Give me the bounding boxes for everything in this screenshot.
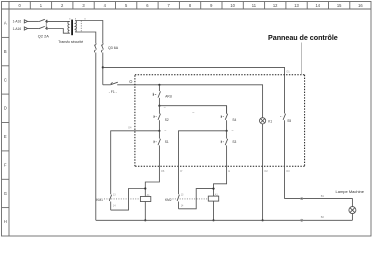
node 1-A16 line2 connector	[24, 27, 27, 30]
svg-text:1-A16: 1-A16	[13, 27, 22, 31]
svg-text:B2: B2	[321, 215, 325, 219]
wire S3 exit to KM2 coil	[214, 166, 227, 196]
wire F1 to ARU junction and K1 drop	[117, 85, 262, 118]
node connector B1	[301, 198, 303, 200]
emergency stop ARU	[153, 85, 160, 106]
breaker Q2 mechanical link	[45, 20, 47, 29]
wire F1 branch into panel	[103, 84, 111, 86]
contactor KM1 latch contact	[109, 189, 145, 211]
wire L1 from connector to Q2	[28, 20, 39, 22]
wire 0V bottom rail	[96, 219, 353, 221]
svg-text:H: H	[4, 219, 7, 224]
svg-text:10: 10	[230, 3, 235, 8]
svg-text:O6: O6	[161, 169, 165, 173]
node junction ARU tap	[158, 84, 160, 86]
pushbutton S4	[221, 106, 228, 131]
fuse switch F1	[110, 82, 118, 85]
svg-text:H: H	[228, 169, 230, 173]
svg-text:O4: O4	[128, 126, 132, 130]
pin tick S4 bottom	[232, 129, 234, 131]
wire transformer secondary bottom to Q3 left pole	[75, 32, 96, 42]
svg-text:O1: O1	[286, 69, 290, 73]
svg-text:Q3 6A: Q3 6A	[108, 46, 119, 50]
wire S1 exit to KM1 coil	[145, 166, 159, 196]
breaker Q2 pole 2	[39, 26, 48, 29]
svg-text:13: 13	[294, 3, 299, 8]
svg-text:S2: S2	[165, 118, 169, 122]
node junction KM1 on 0V rail	[144, 219, 146, 221]
svg-text:ARU: ARU	[165, 94, 172, 98]
mechanical link KM1	[104, 198, 140, 200]
svg-text:Transfo sécurité: Transfo sécurité	[58, 40, 83, 44]
svg-text:B: B	[4, 49, 7, 54]
svg-text:KM1: KM1	[96, 198, 103, 202]
wire phase down from Q3 to F1 tap	[102, 55, 104, 85]
svg-text:B1: B1	[321, 194, 325, 198]
node junction below ARU	[158, 105, 160, 107]
lamp Lampe Machine	[349, 207, 356, 214]
svg-text:S1: S1	[165, 140, 169, 144]
pushbutton S2	[154, 106, 161, 131]
wire to KM2 latch contact	[179, 131, 227, 194]
svg-text:S4: S4	[232, 118, 236, 122]
svg-text:- F1 -: - F1 -	[109, 90, 117, 94]
breaker Q2 pole 1	[39, 19, 48, 22]
svg-text:Lampe Machine: Lampe Machine	[336, 189, 365, 194]
svg-text:KM2: KM2	[165, 198, 172, 202]
pin tick S2 bottom	[164, 129, 166, 131]
pushbutton S1	[154, 131, 161, 167]
svg-text:G: G	[4, 191, 7, 196]
pushbutton S5	[280, 114, 285, 199]
transformer T1 Transfo securite	[68, 18, 85, 35]
svg-text:Q2 2A: Q2 2A	[38, 33, 49, 38]
node terminal circle at panel entry	[130, 80, 132, 82]
leader line from label to panel	[301, 43, 303, 75]
svg-text:O2: O2	[264, 169, 268, 173]
pin tick on branch wire	[192, 111, 194, 113]
node junction KM1 coil top	[144, 187, 146, 189]
breaker Q3 right pole	[101, 42, 103, 55]
breaker Q3 left pole	[94, 42, 96, 55]
pushbutton S3	[221, 131, 228, 167]
wire Q2 pole1 to transformer primary top	[46, 20, 70, 22]
svg-text:O3: O3	[286, 169, 290, 173]
svg-text:1-A16: 1-A16	[13, 20, 22, 24]
coil KM1	[140, 197, 150, 202]
wire 0V left rail down from Q3	[95, 55, 97, 221]
node junction top rail tap	[102, 66, 104, 68]
wire KM2 coil bottom to 0V rail	[213, 201, 215, 220]
node 1-A16 line1 connector	[24, 20, 27, 23]
svg-text:12: 12	[273, 3, 278, 8]
mechanical link KM2	[173, 198, 209, 200]
node junction KM2 coil top	[212, 188, 214, 190]
node connector B2	[301, 219, 303, 221]
node junction KM2 on 0V rail	[212, 219, 214, 221]
node junction below S2	[158, 130, 160, 132]
node junction K1 on 0V rail	[262, 219, 264, 221]
wire Q2 pole2 to transformer primary bottom	[46, 29, 70, 34]
wire transformer secondary top to Q3 right pole	[75, 21, 103, 42]
wire KM1 coil bottom to 0V rail	[144, 202, 146, 221]
panneau de controle dashed box	[135, 75, 305, 167]
contactor KM2 latch contact	[177, 189, 213, 209]
wire 24V top rail to S5 drop	[103, 67, 285, 113]
svg-text:E: E	[4, 134, 7, 139]
svg-text:16: 16	[358, 3, 363, 8]
wire S5 to machine lamp	[285, 199, 353, 207]
svg-text:C: C	[4, 77, 7, 82]
svg-text:S5: S5	[287, 119, 291, 123]
wire K1 bottom to 0V rail	[262, 124, 264, 220]
svg-text:S3: S3	[232, 140, 236, 144]
svg-text:14: 14	[316, 3, 321, 8]
indicator lamp K1	[260, 118, 266, 124]
wire L2 from connector to Q2	[28, 28, 39, 30]
svg-text:Panneau de contrôle: Panneau de contrôle	[268, 33, 338, 42]
svg-text:15: 15	[337, 3, 342, 8]
svg-text:11: 11	[252, 3, 257, 8]
wire branch to S4	[159, 106, 226, 114]
svg-text:K1: K1	[268, 119, 272, 123]
svg-text:D: D	[4, 106, 7, 111]
wire to KM1 latch contact	[111, 131, 160, 194]
svg-text:A: A	[4, 21, 7, 26]
coil KM2	[208, 196, 218, 201]
node junction below S4	[226, 130, 228, 132]
pin tick below ARU junction	[164, 106, 166, 108]
wire lamp bottom to 0V rail	[351, 213, 353, 220]
